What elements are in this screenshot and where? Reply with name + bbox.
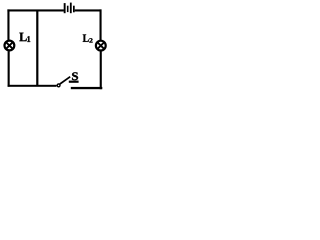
label L2: [83, 35, 93, 43]
battery plate short 2: [73, 6, 75, 13]
switch fixed contact bar: [69, 81, 79, 83]
switch S: [57, 77, 78, 87]
battery (two cells): [64, 3, 75, 14]
battery plate long 1: [64, 3, 66, 13]
battery plate short 1: [67, 6, 69, 12]
wire right vertical lower (lamp L2 to bottom-right corner): [100, 51, 102, 89]
lamp L2 symbol: [96, 41, 106, 51]
wire left vertical lower (lamp L1 to bottom-left corner): [8, 51, 10, 86]
switch arm (open blade): [60, 77, 70, 84]
battery plate long 2: [70, 3, 72, 14]
label S: [72, 72, 78, 80]
wire bottom-right segment (switch to right corner): [71, 87, 103, 89]
switch pivot contact circle: [57, 84, 60, 87]
wire top-right segment (battery to right corner): [75, 9, 102, 11]
wire left vertical upper (down to lamp L1): [7, 9, 9, 40]
label L1: [19, 33, 30, 42]
wire top-left segment (left corner to battery): [7, 9, 64, 11]
lamp L1 symbol: [4, 41, 14, 51]
wire right vertical upper (down to lamp L2): [100, 9, 102, 40]
wire middle vertical branch: [36, 10, 38, 86]
wire bottom-left segment (left corner to switch): [8, 85, 57, 87]
